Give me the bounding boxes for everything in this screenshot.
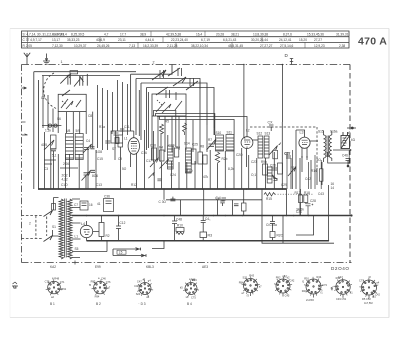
svg-text:C29: C29 xyxy=(281,183,287,187)
tube B3 envelope (triode-hexode) xyxy=(128,138,139,155)
staircase wire 3 xyxy=(158,116,248,137)
output transformer core xyxy=(327,136,329,158)
border tick arrows left xyxy=(22,87,28,135)
svg-text:R42: R42 xyxy=(336,276,341,280)
wires right of L3 down xyxy=(291,130,322,216)
svg-text:R44: R44 xyxy=(317,275,322,279)
svg-text:R2O: R2O xyxy=(277,234,284,238)
svg-text:R93: R93 xyxy=(91,280,96,284)
svg-text:S13: S13 xyxy=(265,132,271,136)
volume pot arrow xyxy=(288,167,296,177)
right AF components R9b C26 C27 xyxy=(263,156,292,175)
oscillator padder zigzag resistor xyxy=(183,123,187,135)
svg-text:4O5: 4O5 xyxy=(41,143,47,147)
svg-text:10,29,37: 10,29,37 xyxy=(74,44,87,48)
junction at (262,215.5) xyxy=(261,215,263,217)
svg-text:C49 C51: C49 C51 xyxy=(336,297,347,301)
svg-text:16,4: 16,4 xyxy=(196,32,202,36)
terminal dot on border xyxy=(347,127,356,129)
svg-text:S15: S15 xyxy=(318,130,324,134)
svg-text:AE3: AE3 xyxy=(202,265,208,269)
svg-text:4,22: 4,22 xyxy=(62,177,68,181)
RF section value labels sprinkle xyxy=(41,96,130,171)
IF coil hatched box x186 xyxy=(186,148,192,173)
wire second vertical xyxy=(38,80,40,189)
svg-text:R5 C52: R5 C52 xyxy=(362,297,371,301)
svg-text:13,17: 13,17 xyxy=(52,38,60,42)
coil S9 (hatched box) xyxy=(75,134,83,160)
svg-text:C3: C3 xyxy=(44,167,48,171)
svg-text:C42: C42 xyxy=(305,177,311,181)
svg-text:C77: C77 xyxy=(359,278,364,282)
svg-text:B 1: B 1 xyxy=(50,302,55,306)
trimmer arrow near x163 xyxy=(160,159,169,169)
chassis boundary right (dashed) xyxy=(349,65,351,263)
svg-text:5,1: 5,1 xyxy=(52,154,57,158)
svg-text:S24: S24 xyxy=(136,292,141,296)
tube B3 electrodes xyxy=(131,142,137,152)
svg-text:⁻ D 3: ⁻ D 3 xyxy=(138,302,146,306)
parts table row 3 values xyxy=(23,44,346,48)
wire below bus to C30 xyxy=(163,189,165,200)
wire switch to transformer xyxy=(53,198,59,237)
svg-text:17,7: 17,7 xyxy=(120,32,126,36)
detector stage dashed box right xyxy=(316,127,318,168)
svg-text:C73: C73 xyxy=(322,283,327,287)
svg-text:S1: S1 xyxy=(52,225,56,229)
IF coil S12 (hatched) xyxy=(258,136,263,158)
R1 leads xyxy=(101,216,103,241)
R24 leads xyxy=(320,160,322,189)
svg-text:30,20,26,44: 30,20,26,44 xyxy=(251,38,268,42)
svg-text:S7: S7 xyxy=(112,147,116,151)
svg-text:15,20: 15,20 xyxy=(299,38,307,42)
capacitor C5b xyxy=(91,147,95,149)
R20 lead xyxy=(272,238,274,241)
small box R2a xyxy=(273,150,278,159)
junction at (203.2,240.7) xyxy=(202,240,204,242)
junction dot speaker return xyxy=(348,162,350,164)
svg-text:27,5,14,6: 27,5,14,6 xyxy=(280,44,294,48)
HT bus terminal dot xyxy=(350,214,352,216)
terminal tick near D xyxy=(290,59,293,65)
svg-text:C42: C42 xyxy=(375,292,380,296)
tube socket B7 xyxy=(304,277,323,296)
svg-text:C13: C13 xyxy=(96,183,102,187)
svg-text:35,33,23: 35,33,23 xyxy=(67,38,80,42)
antenna symbol xyxy=(24,53,30,65)
rectifier leads xyxy=(87,221,100,241)
svg-text:4x7,5M: 4x7,5M xyxy=(364,301,373,305)
capacitor C5 trimmer (variable, arrow) xyxy=(83,144,92,153)
transformer core xyxy=(65,199,67,258)
svg-text:4,7: 4,7 xyxy=(104,32,109,36)
svg-text:KA2: KA2 xyxy=(50,265,56,269)
right return vertical xyxy=(327,185,329,241)
svg-text:R14: R14 xyxy=(311,169,317,173)
capacitor C14 xyxy=(222,198,227,200)
svg-text:23,11: 23,11 xyxy=(118,38,126,42)
svg-text:C48: C48 xyxy=(176,218,182,222)
inner return rectangle xyxy=(262,216,334,244)
junction at (213.5,215.5) xyxy=(213,215,215,217)
wire left vertical xyxy=(33,72,35,189)
wire tube B3 grid top xyxy=(112,131,134,134)
svg-text:R18: R18 xyxy=(304,191,310,195)
svg-text:C46: C46 xyxy=(101,277,106,281)
resistor R15 wirewound zigzag (horizontal) xyxy=(264,193,275,197)
gram pickup leads L5 (arrows) xyxy=(113,248,146,257)
mixer tube leads xyxy=(244,137,258,167)
capacitor C36 box left xyxy=(104,199,114,212)
svg-text:L2: L2 xyxy=(246,129,250,133)
tube socket B8 xyxy=(334,278,352,296)
tube socket D3 xyxy=(137,280,153,296)
staircase wire 1 xyxy=(154,111,176,148)
svg-text:16: 16 xyxy=(89,203,93,207)
oscillator grid resistor zigzag xyxy=(160,124,164,134)
svg-text:13,8,39,38: 13,8,39,38 xyxy=(253,32,268,36)
secondary taps xyxy=(72,199,107,258)
IF trimmer arrow xyxy=(269,146,278,156)
svg-text:C25: C25 xyxy=(284,152,290,156)
svg-text:R17: R17 xyxy=(295,191,301,195)
pilot lamp box xyxy=(80,201,88,210)
wire x242 below bus xyxy=(243,189,245,216)
svg-text:R5: R5 xyxy=(165,120,169,124)
svg-text:4Ω: 4Ω xyxy=(351,138,356,142)
svg-text:42,39,5,38: 42,39,5,38 xyxy=(166,32,181,36)
R17 R18 C28 C29 cluster xyxy=(299,189,314,216)
lower return bus (thick) xyxy=(87,240,329,242)
svg-text:38,21: 38,21 xyxy=(231,32,239,36)
svg-text:C47: C47 xyxy=(137,280,142,284)
earth tag at left margin xyxy=(12,282,18,288)
svg-text:12,9,23: 12,9,23 xyxy=(314,44,325,48)
svg-text:C8: C8 xyxy=(88,114,92,118)
chassis terminal labels xyxy=(50,265,208,269)
svg-text:C2: C2 xyxy=(41,96,45,100)
junction at (282.3,189) xyxy=(282,188,284,190)
resistor R10 (small box + wirewound) xyxy=(176,228,184,235)
mid comb verticals (between B3 and mixer) xyxy=(139,90,168,189)
osc coil zigzag below S10 xyxy=(215,152,219,164)
svg-text:C23: C23 xyxy=(251,160,257,164)
page edge left xyxy=(9,29,11,318)
svg-text:4,44,6: 4,44,6 xyxy=(145,38,154,42)
svg-text:R48: R48 xyxy=(54,276,59,280)
wire AVC line xyxy=(166,199,262,201)
svg-text:C42: C42 xyxy=(290,279,295,283)
svg-text:470 A: 470 A xyxy=(358,36,387,48)
junction at (118.5,215.5) xyxy=(118,215,120,217)
svg-text:L1: L1 xyxy=(124,137,128,141)
capacitor C27 marks xyxy=(274,179,278,181)
svg-text:C16: C16 xyxy=(141,151,147,155)
resistor R 1,1k (box) xyxy=(51,135,57,149)
svg-text:C24: C24 xyxy=(170,173,176,177)
svg-text:C43: C43 xyxy=(318,192,324,196)
AF verticals extra xyxy=(287,150,315,189)
svg-text:R2: R2 xyxy=(106,234,110,238)
IF coil hatched box x168 xyxy=(168,146,174,169)
svg-text:S11: S11 xyxy=(227,131,233,135)
left lower verticals to bus xyxy=(44,132,120,189)
svg-text:C 3O: C 3O xyxy=(159,200,167,204)
svg-text:S5: S5 xyxy=(75,247,79,251)
tube L3 leads xyxy=(296,130,318,172)
osc trimmer arrow xyxy=(207,139,217,150)
inner box wipers xyxy=(156,100,182,113)
svg-text:7,13: 7,13 xyxy=(129,44,135,48)
rectifier electrodes xyxy=(84,230,90,235)
capacitor C33 xyxy=(234,204,239,206)
svg-text:22,23,24,40: 22,23,24,40 xyxy=(171,38,188,42)
grid capacitor cluster left of B3 xyxy=(114,129,125,144)
capacitor C44 xyxy=(220,201,225,206)
chassis boundary left (dash-dot) xyxy=(21,65,23,263)
wire x232 below line xyxy=(232,200,234,216)
svg-text:R9b: R9b xyxy=(261,160,267,164)
coil S11 (hatched) xyxy=(226,135,234,152)
trimmer arrow C16 xyxy=(150,158,159,168)
tap labels C7 L1 S5 xyxy=(74,203,79,251)
svg-text:27,27: 27,27 xyxy=(314,38,322,42)
mains switch blade bottom xyxy=(44,236,53,242)
capacitor C15a xyxy=(270,216,275,232)
svg-text:B 4: B 4 xyxy=(187,302,192,306)
svg-text:C17: C17 xyxy=(146,159,152,163)
capacitor C30 xyxy=(170,197,175,201)
svg-text:R 2 05: R 2 05 xyxy=(23,44,33,48)
detector diode arrow A xyxy=(278,142,281,145)
svg-text:C28: C28 xyxy=(310,199,316,203)
tube B3 leads xyxy=(131,131,137,189)
svg-text:B 2: B 2 xyxy=(96,302,101,306)
resistor box x120 xyxy=(118,135,123,147)
svg-text:C4: C4 xyxy=(86,139,90,143)
svg-text:5O: 5O xyxy=(317,158,322,162)
svg-text:1,1k: 1,1k xyxy=(45,129,51,133)
svg-text:16,2,33,39: 16,2,33,39 xyxy=(143,44,158,48)
oscillator block inner box xyxy=(152,94,186,116)
tube socket B6 xyxy=(274,277,292,295)
switch contact bars xyxy=(68,74,87,86)
bus end drop xyxy=(286,189,288,216)
svg-text:6,7,19: 6,7,19 xyxy=(201,38,210,42)
svg-text:38,9: 38,9 xyxy=(140,32,146,36)
svg-text:S22: S22 xyxy=(243,275,248,279)
mains switch blade top xyxy=(44,211,53,217)
svg-text:C7: C7 xyxy=(74,203,78,207)
svg-text:1O8: 1O8 xyxy=(96,150,102,154)
svg-text:20,28: 20,28 xyxy=(216,32,224,36)
svg-text:R7: R7 xyxy=(208,138,212,142)
svg-text:D2O4O: D2O4O xyxy=(331,266,350,271)
svg-text:C45: C45 xyxy=(285,294,290,298)
socket lead stubs xyxy=(251,293,370,299)
svg-text:C18: C18 xyxy=(150,144,156,148)
svg-text:R4: R4 xyxy=(159,146,163,150)
wiper arrow left section xyxy=(44,140,54,150)
svg-text:C4₅: C4₅ xyxy=(205,217,211,221)
node D wire (long vertical) xyxy=(243,65,245,138)
border tick mark xyxy=(74,261,76,265)
junction at (144.5,189) xyxy=(144,188,146,190)
junction at (107,240.7) xyxy=(106,240,108,242)
connector pair C1 C2 xyxy=(42,124,61,127)
svg-text:6,5,21,43: 6,5,21,43 xyxy=(223,38,237,42)
switch section 2 wipers xyxy=(61,99,81,109)
loudspeaker (box with voice coil) xyxy=(341,132,350,149)
band switch wiper arrows xyxy=(60,74,80,96)
svg-text:8,2k: 8,2k xyxy=(228,167,234,171)
junction at (101.5,240.7) xyxy=(101,240,103,242)
capacitor stack C1b xyxy=(51,149,56,189)
svg-text:2O6: 2O6 xyxy=(63,162,69,166)
fuse R25 box xyxy=(52,204,56,211)
earth symbol xyxy=(43,54,50,65)
svg-text:C25: C25 xyxy=(192,143,198,147)
junction at (202.5,189) xyxy=(202,188,204,190)
coil S8 (hatched box) xyxy=(66,134,74,160)
svg-text:L4: L4 xyxy=(81,222,85,226)
switch section 2 box xyxy=(58,94,86,111)
coupling coil box top xyxy=(70,71,78,74)
wire x204 below bus xyxy=(203,189,205,216)
svg-text:41: 41 xyxy=(97,202,101,206)
svg-text:C36: C36 xyxy=(104,195,110,199)
svg-text:R12: R12 xyxy=(131,183,137,187)
electrolytic C12 xyxy=(116,216,121,241)
svg-text:R44: R44 xyxy=(302,289,307,293)
svg-text:CX: CX xyxy=(268,121,274,125)
label L5 (boxed) xyxy=(117,250,126,255)
svg-text:R1O: R1O xyxy=(186,169,193,173)
junction at (86.5,215.5) xyxy=(86,215,88,217)
junction at (286.5,215.5) xyxy=(286,215,288,217)
svg-text:C12: C12 xyxy=(120,221,126,225)
parts table column dividers xyxy=(28,31,306,48)
svg-text:C1O: C1O xyxy=(61,183,68,187)
extra value labels sprinkle xyxy=(61,120,324,215)
junction at (164,189) xyxy=(163,188,165,190)
AF comb verticals to chassis bus xyxy=(154,122,282,189)
svg-text:C76: C76 xyxy=(106,280,111,284)
svg-text:40,6,9: 40,6,9 xyxy=(96,38,105,42)
svg-text:S16a: S16a xyxy=(330,130,338,134)
staircase wire 4 xyxy=(160,116,235,135)
IF/AF component row boxes xyxy=(152,148,208,164)
svg-text:1: 1 xyxy=(61,60,63,64)
svg-text:C46: C46 xyxy=(342,154,348,158)
svg-text:S6: S6 xyxy=(57,117,61,121)
svg-text:2: 2 xyxy=(29,222,31,226)
band switch S1 rotary arc (dashed) xyxy=(44,73,57,109)
svg-text:O,1: O,1 xyxy=(251,173,256,177)
parts table frame xyxy=(22,31,350,48)
svg-text:C2O: C2O xyxy=(236,153,243,157)
capacitor trimmer C15 (diagonal arrow) xyxy=(82,171,91,190)
svg-text:C71: C71 xyxy=(60,280,65,284)
transformer top leads xyxy=(324,131,332,163)
detector stage dashed box top xyxy=(250,126,317,128)
svg-text:2,38: 2,38 xyxy=(339,44,345,48)
smoothing resistor R1 xyxy=(99,223,104,237)
svg-text:S10: S10 xyxy=(216,131,222,135)
resistor R20 xyxy=(270,232,275,238)
tube L3 electrodes xyxy=(302,140,308,144)
IF coil S13 (hatched) xyxy=(264,136,269,158)
svg-text:8,25,39,5: 8,25,39,5 xyxy=(71,32,85,36)
svg-text:45,5,31,45: 45,5,31,45 xyxy=(228,44,243,48)
volume pot R9 (hatched) xyxy=(267,167,272,183)
svg-text:C/C15a: C/C15a xyxy=(266,223,277,227)
pot wiper arrow xyxy=(272,175,278,181)
capacitor CX xyxy=(269,125,274,131)
power transformer secondary xyxy=(68,199,72,259)
coil S10 (hatched) xyxy=(216,135,224,151)
svg-text:C41: C41 xyxy=(61,287,66,291)
svg-text:KBL3: KBL3 xyxy=(146,265,154,269)
capacitor C46 at border xyxy=(346,159,351,167)
wire from S5 tap down xyxy=(106,241,108,252)
tube socket B1 xyxy=(46,279,62,295)
oscillator switch wipers xyxy=(152,68,198,95)
tube socket B2 xyxy=(92,279,109,295)
wire gram input xyxy=(281,65,283,123)
wire x262 below bus xyxy=(261,189,263,216)
svg-text:R8: R8 xyxy=(200,145,204,149)
resistor R24 (vertical box) xyxy=(319,169,323,181)
wires from switch down xyxy=(152,116,214,160)
svg-text:R92: R92 xyxy=(276,275,281,279)
svg-text:C19: C19 xyxy=(169,144,175,148)
svg-text:14: 14 xyxy=(331,186,335,190)
output transformer S15 primary coil xyxy=(324,135,326,158)
svg-text:E99: E99 xyxy=(95,265,101,269)
mains input dashed leads xyxy=(22,216,47,239)
socket value notes xyxy=(306,297,373,305)
mixer tube B4 envelope xyxy=(241,137,253,149)
capacitor C48 xyxy=(172,216,177,241)
tube socket B5 xyxy=(241,276,259,294)
capacitor C45 xyxy=(201,216,206,233)
junction at (164,215.5) xyxy=(163,215,165,217)
svg-text:5O: 5O xyxy=(122,167,127,171)
cluster labels xyxy=(295,182,335,212)
svg-text:C9: C9 xyxy=(118,157,122,161)
svg-text:C11: C11 xyxy=(124,125,130,129)
svg-text:R3: R3 xyxy=(208,234,213,238)
svg-text:7,12,30: 7,12,30 xyxy=(52,44,63,48)
svg-text:15,33,45,36: 15,33,45,36 xyxy=(307,32,324,36)
svg-text:24,12,41: 24,12,41 xyxy=(279,38,292,42)
chassis ground bus (thick) xyxy=(38,188,287,190)
wire x217 below line xyxy=(217,200,219,216)
svg-text:R1a: R1a xyxy=(99,125,105,129)
svg-text:R94: R94 xyxy=(239,281,244,285)
tube socket B4 xyxy=(183,280,199,296)
junction at (293.7,215.5) xyxy=(293,215,295,217)
page edge right xyxy=(388,29,390,318)
junction at (225.3,215.5) xyxy=(225,215,227,217)
page edge top xyxy=(10,28,389,30)
junction at (243.9,64.5) xyxy=(243,64,245,66)
svg-text:L5: L5 xyxy=(119,251,123,255)
labels C26 C27 R9b xyxy=(261,152,296,170)
svg-text:S12: S12 xyxy=(257,132,263,136)
